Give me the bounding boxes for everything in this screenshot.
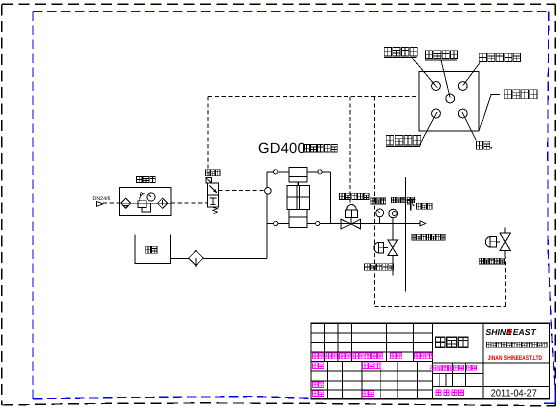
label 电磁阀 xyxy=(206,170,220,176)
wire control dashed drop to shutoff valve xyxy=(349,97,351,205)
shutoff valve stem xyxy=(350,217,352,223)
label 批准 xyxy=(363,391,374,397)
wire down to relief valve xyxy=(392,223,394,240)
pressure gauge on regulator xyxy=(147,193,155,201)
label 气液增压泵 xyxy=(304,145,338,152)
svg-text:DN24/6: DN24/6 xyxy=(93,196,111,202)
lubricator diamond xyxy=(158,198,168,208)
air inlet arrow xyxy=(96,201,103,206)
leader exhaust button xyxy=(441,60,450,98)
title 原理图 xyxy=(436,337,468,347)
wire relief valve drain xyxy=(392,255,394,275)
svg-text:GD400: GD400 xyxy=(258,141,306,157)
pump GD400 body xyxy=(287,168,310,228)
button main valve (bottom-right) xyxy=(458,109,467,118)
date 2011-04-27 xyxy=(491,389,537,400)
wire control dashed top horizontal xyxy=(208,96,419,98)
shutoff valve actuator dome xyxy=(346,204,358,217)
wire relief actuator link xyxy=(383,247,388,249)
wire pilot relief down stub xyxy=(504,251,506,257)
logo SHINEEAST xyxy=(486,327,537,337)
label 标准化 xyxy=(363,363,381,369)
logo company chinese line xyxy=(487,342,548,347)
wire left bus vertical xyxy=(266,172,268,259)
label 气控泄压阀 xyxy=(479,258,504,264)
solenoid coil symbol xyxy=(206,178,212,183)
label 阶段标记 xyxy=(431,365,454,371)
node bottom-right port circle xyxy=(316,221,320,225)
leader start button xyxy=(412,58,437,88)
node bottom-left port circle xyxy=(274,221,278,225)
label 气动泄压阀 xyxy=(365,264,394,271)
suction filter diamond xyxy=(189,251,204,267)
filter F1 diamond xyxy=(121,198,131,208)
outlet arrow 快换接头 xyxy=(420,221,426,226)
leader main valve xyxy=(462,112,476,141)
wire pump top-right port xyxy=(307,171,330,173)
label DN24/6 inlet xyxy=(93,196,111,202)
label 二联件 xyxy=(137,176,156,182)
svg-text:JINAN SHINEEAST.LTD: JINAN SHINEEAST.LTD xyxy=(488,355,543,362)
label 至使用测试设备 xyxy=(412,234,445,240)
wire suction tank to filter xyxy=(170,258,188,260)
wire vertical boundary line xyxy=(405,177,407,292)
wire pump top-left port xyxy=(267,171,289,173)
label 总阀 xyxy=(477,141,492,149)
label 油箱 xyxy=(145,246,157,253)
button start (top-left) xyxy=(432,82,441,91)
label 控制面板 xyxy=(504,90,537,99)
pilot relief actuator xyxy=(485,237,496,247)
wire inlet dashed to FRL xyxy=(103,202,120,204)
svg-text:2011-04-27: 2011-04-27 xyxy=(491,389,537,400)
shutoff valve body bowtie xyxy=(341,219,360,229)
solenoid valve 电磁阀 body xyxy=(208,183,219,207)
label 标记 处数 分区 更改文件号 签名 年月日 xyxy=(313,353,433,359)
logo JINAN SHINEEAST LTD xyxy=(488,355,543,362)
leader pressure controller xyxy=(463,63,480,86)
label 设计 xyxy=(313,363,324,369)
control panel box xyxy=(419,72,479,131)
label 停止按钮 xyxy=(386,136,421,147)
button stop (bottom-left) xyxy=(432,109,441,118)
title block grid xyxy=(311,323,550,399)
label 工艺 xyxy=(313,391,324,397)
leader stop button xyxy=(420,112,437,145)
label 共张第张 xyxy=(436,390,464,396)
wire right bus vertical xyxy=(329,172,331,224)
pressure sensor 压力传感器 xyxy=(389,209,398,223)
node top-right port circle xyxy=(318,170,322,174)
label 启动按钮 xyxy=(384,48,417,58)
wire pilot relief actuator link xyxy=(496,241,500,243)
button exhaust (center) xyxy=(446,94,455,103)
label 审核 xyxy=(313,382,324,388)
wire control dashed bottom horizontal xyxy=(374,305,505,307)
label GD400 xyxy=(258,141,306,157)
regulator R1 xyxy=(138,192,150,212)
pilot relief valve 气控泄压阀 body xyxy=(500,233,510,251)
wire suction filter to pump bus xyxy=(203,258,267,260)
label 压力传感器 xyxy=(392,197,415,203)
label 排气按钮 xyxy=(425,51,458,60)
pilot relief stub up xyxy=(504,227,506,233)
solenoid return spring xyxy=(212,207,218,214)
FRL unit box (二联件) xyxy=(119,187,171,215)
node pump air pilot circle xyxy=(265,188,272,195)
wire pump bottom-left port xyxy=(267,222,289,224)
relief valve 气动泄压阀 body xyxy=(388,240,398,255)
wire control dashed up to pilot relief xyxy=(504,257,506,307)
label 重量 xyxy=(454,365,464,370)
oil tank 油箱 xyxy=(135,235,171,264)
svg-text:EAST: EAST xyxy=(513,327,537,337)
label 快换接头 xyxy=(407,200,432,211)
wire through FRL xyxy=(119,202,171,204)
wire FRL to solenoid dashed xyxy=(171,202,208,204)
wire pilot dashed solenoid to pump xyxy=(219,190,265,192)
wire pump bottom-right port to outlet line xyxy=(307,222,420,224)
leader control panel xyxy=(479,94,500,131)
wire control dashed solenoid up xyxy=(207,97,209,178)
node top-left port circle xyxy=(274,170,278,174)
pressure gauge 压力表 xyxy=(376,209,384,223)
relief valve actuator xyxy=(374,243,384,253)
label 压力控制器 xyxy=(479,53,520,61)
label 压力表 xyxy=(371,198,386,204)
wire control dashed drop long xyxy=(373,97,375,307)
label 气动截止阀 xyxy=(339,193,369,199)
button pressure ctrl (top-right) xyxy=(458,82,467,91)
label 比例 xyxy=(467,365,477,370)
